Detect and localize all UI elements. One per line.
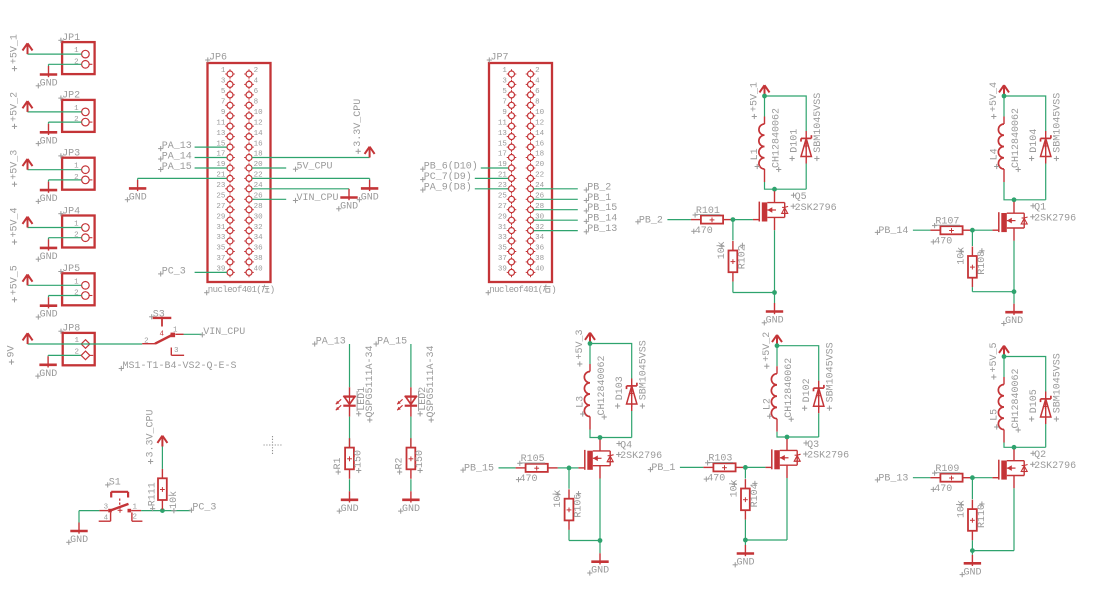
- svg-text:3: 3: [502, 78, 507, 86]
- svg-text:38: 38: [254, 255, 263, 263]
- svg-text:JP3: JP3: [62, 149, 80, 160]
- svg-text:R101: R101: [696, 206, 720, 217]
- svg-text:27: 27: [498, 203, 507, 211]
- svg-text:2: 2: [74, 116, 79, 124]
- svg-text:470: 470: [934, 237, 952, 248]
- svg-text:9V: 9V: [7, 345, 18, 357]
- svg-text:JP5: JP5: [62, 264, 80, 275]
- svg-text:15: 15: [498, 140, 508, 148]
- svg-text:7: 7: [502, 99, 507, 107]
- svg-text:GND: GND: [766, 316, 784, 327]
- svg-text:PB_15: PB_15: [587, 203, 617, 214]
- svg-text:2: 2: [133, 514, 138, 522]
- svg-text:GND: GND: [70, 535, 88, 546]
- svg-text:33: 33: [216, 234, 226, 242]
- svg-text:R2: R2: [395, 457, 406, 469]
- svg-text:25: 25: [498, 193, 508, 201]
- svg-text:R109: R109: [935, 464, 959, 475]
- svg-text:GND: GND: [341, 504, 359, 515]
- svg-text:1: 1: [173, 326, 178, 334]
- svg-text:CH12840062: CH12840062: [597, 355, 608, 415]
- svg-text:3: 3: [174, 347, 179, 355]
- svg-text:PB_15: PB_15: [464, 464, 494, 475]
- svg-text:28: 28: [254, 203, 263, 211]
- svg-text:2SK2796: 2SK2796: [1034, 213, 1076, 224]
- svg-text:7: 7: [221, 99, 226, 107]
- svg-text:470: 470: [934, 484, 952, 495]
- svg-text:Q1: Q1: [1034, 203, 1046, 214]
- svg-text:PB_2: PB_2: [587, 182, 611, 193]
- svg-text:+5V_4: +5V_4: [989, 82, 1000, 112]
- svg-text:36: 36: [254, 245, 264, 253]
- svg-text:31: 31: [216, 224, 226, 232]
- svg-text:R111: R111: [148, 482, 159, 506]
- svg-text:3: 3: [104, 504, 109, 512]
- svg-text:2SK2796: 2SK2796: [807, 451, 849, 462]
- svg-text:R104: R104: [750, 483, 761, 507]
- svg-text:+5V_3: +5V_3: [575, 329, 586, 359]
- svg-text:R106: R106: [574, 494, 585, 518]
- svg-text:1: 1: [502, 67, 507, 75]
- svg-text:37: 37: [498, 255, 507, 263]
- svg-text:33: 33: [498, 234, 508, 242]
- svg-text:36: 36: [535, 245, 545, 253]
- svg-text:+5V_1: +5V_1: [749, 82, 760, 112]
- svg-text:6: 6: [535, 88, 540, 96]
- svg-text:10: 10: [535, 109, 545, 117]
- svg-text:D104: D104: [1029, 129, 1040, 153]
- svg-text:9: 9: [502, 109, 507, 117]
- svg-text:8: 8: [535, 99, 540, 107]
- svg-text:3.3V_CPU: 3.3V_CPU: [353, 99, 364, 147]
- svg-text:34: 34: [535, 234, 545, 242]
- svg-text:PA_13: PA_13: [162, 141, 192, 152]
- svg-text:8: 8: [254, 99, 259, 107]
- svg-text:12: 12: [254, 119, 263, 127]
- svg-text:PB_2: PB_2: [639, 215, 663, 226]
- svg-text:18: 18: [535, 151, 544, 159]
- svg-text:PB_1: PB_1: [587, 193, 611, 204]
- svg-text:2: 2: [144, 338, 149, 346]
- svg-text:5: 5: [502, 88, 507, 96]
- svg-text:2SK2796: 2SK2796: [1034, 461, 1076, 472]
- svg-text:PA_15: PA_15: [162, 162, 192, 173]
- svg-text:25: 25: [216, 193, 226, 201]
- svg-text:SBM1045VSS: SBM1045VSS: [639, 340, 650, 400]
- svg-text:PA_14: PA_14: [162, 152, 192, 163]
- svg-text:5: 5: [221, 88, 226, 96]
- svg-text:L5: L5: [990, 409, 1001, 421]
- svg-text:R1: R1: [333, 457, 344, 469]
- svg-text:QSPG5111A-34: QSPG5111A-34: [426, 345, 437, 417]
- svg-text:23: 23: [216, 182, 226, 190]
- svg-text:17: 17: [498, 151, 507, 159]
- svg-text:GND: GND: [361, 192, 379, 203]
- svg-text:14: 14: [254, 130, 264, 138]
- svg-text:Q5: Q5: [795, 192, 807, 203]
- svg-text:D103: D103: [615, 376, 626, 400]
- svg-text:+5V_2: +5V_2: [10, 92, 21, 122]
- svg-text:4: 4: [160, 331, 165, 339]
- svg-text:GND: GND: [402, 504, 420, 515]
- svg-text:470: 470: [520, 474, 538, 485]
- svg-text:11: 11: [498, 119, 508, 127]
- svg-text:2: 2: [74, 58, 79, 66]
- svg-text:GND: GND: [964, 567, 982, 578]
- svg-text:16: 16: [535, 140, 545, 148]
- svg-text:+5V_2: +5V_2: [762, 332, 773, 362]
- svg-text:JP2: JP2: [62, 91, 80, 102]
- svg-text:PB_13: PB_13: [878, 474, 908, 485]
- svg-text:PC_7(D9): PC_7(D9): [424, 171, 472, 183]
- svg-text:GND: GND: [129, 192, 147, 203]
- svg-text:QSPG5111A-34: QSPG5111A-34: [365, 345, 376, 417]
- svg-text:4: 4: [104, 514, 109, 522]
- svg-text:6: 6: [254, 88, 259, 96]
- svg-text:PB_14: PB_14: [878, 226, 908, 237]
- svg-text:L4: L4: [990, 148, 1001, 160]
- svg-text:+5V_5: +5V_5: [989, 342, 1000, 372]
- svg-text:150: 150: [354, 450, 365, 468]
- svg-text:Q4: Q4: [620, 440, 632, 451]
- svg-text:Q3: Q3: [807, 440, 819, 451]
- svg-text:29: 29: [498, 213, 507, 221]
- svg-text:2: 2: [74, 232, 79, 240]
- svg-text:35: 35: [498, 245, 508, 253]
- svg-text:2: 2: [74, 290, 79, 298]
- svg-text:11: 11: [216, 119, 226, 127]
- svg-text:PC_3: PC_3: [162, 266, 186, 277]
- svg-text:nucleof401(: nucleof401(: [489, 285, 542, 295]
- svg-text:2: 2: [254, 67, 259, 75]
- svg-text:31: 31: [498, 224, 508, 232]
- svg-text:nucleof401(: nucleof401(: [208, 285, 261, 295]
- svg-text:GND: GND: [40, 310, 58, 321]
- svg-text:29: 29: [216, 213, 225, 221]
- svg-text:12: 12: [535, 119, 544, 127]
- svg-text:2SK2796: 2SK2796: [620, 451, 662, 462]
- svg-text:R105: R105: [521, 454, 545, 465]
- svg-text:JP7: JP7: [491, 53, 509, 64]
- svg-text:4: 4: [254, 78, 259, 86]
- svg-text:R108: R108: [977, 251, 988, 275]
- svg-text:32: 32: [254, 224, 263, 232]
- svg-text:GND: GND: [591, 566, 609, 577]
- svg-text:30: 30: [254, 213, 264, 221]
- svg-text:40: 40: [535, 266, 545, 274]
- svg-text:SBM1045VSS: SBM1045VSS: [1053, 353, 1064, 413]
- svg-text:34: 34: [254, 234, 264, 242]
- svg-text:GND: GND: [40, 136, 58, 147]
- svg-text:PB_6(D10): PB_6(D10): [424, 161, 478, 173]
- svg-text:Q2: Q2: [1034, 450, 1046, 461]
- svg-text:16: 16: [254, 140, 264, 148]
- svg-text:13: 13: [498, 130, 508, 138]
- svg-text:GND: GND: [39, 369, 57, 380]
- svg-text:1: 1: [221, 67, 226, 75]
- svg-text:PB_1: PB_1: [651, 463, 675, 474]
- svg-text:PA_13: PA_13: [316, 336, 346, 347]
- svg-text:35: 35: [216, 245, 226, 253]
- svg-text:D105: D105: [1029, 389, 1040, 413]
- svg-text:38: 38: [535, 255, 544, 263]
- svg-text:L2: L2: [763, 398, 774, 410]
- svg-text:JP6: JP6: [209, 53, 227, 64]
- svg-text:150: 150: [415, 450, 426, 468]
- svg-text:+5V_3: +5V_3: [10, 150, 21, 180]
- svg-text:SBM1045VSS: SBM1045VSS: [1053, 93, 1064, 153]
- svg-text:R107: R107: [935, 217, 959, 228]
- svg-text:SBM1045VSS: SBM1045VSS: [826, 342, 837, 402]
- svg-text:CH12840062: CH12840062: [772, 108, 783, 168]
- svg-text:MS1-T1-B4-VS2-Q-E-S: MS1-T1-B4-VS2-Q-E-S: [123, 361, 237, 372]
- svg-text:GND: GND: [40, 79, 58, 90]
- svg-text:CH12840062: CH12840062: [1011, 368, 1022, 428]
- svg-text:20: 20: [535, 161, 545, 169]
- svg-text:3: 3: [221, 78, 226, 86]
- svg-text:L1: L1: [750, 148, 761, 160]
- svg-text:GND: GND: [737, 558, 755, 569]
- svg-text:GND: GND: [340, 202, 358, 213]
- svg-text:PB_14: PB_14: [587, 214, 617, 225]
- svg-text:GND: GND: [40, 194, 58, 205]
- svg-text:CH12840062: CH12840062: [784, 358, 795, 418]
- svg-text:9: 9: [221, 109, 226, 117]
- svg-text:): ): [270, 285, 275, 295]
- svg-text:22: 22: [535, 172, 544, 180]
- svg-text:JP1: JP1: [62, 33, 80, 44]
- svg-text:PA_9(D8): PA_9(D8): [424, 181, 472, 193]
- svg-text:4: 4: [535, 78, 540, 86]
- svg-text:VIN_CPU: VIN_CPU: [203, 327, 245, 338]
- svg-text:PC_3: PC_3: [192, 503, 216, 514]
- svg-text:L3: L3: [576, 396, 587, 408]
- svg-text:GND: GND: [40, 252, 58, 263]
- svg-text:3.3V_CPU: 3.3V_CPU: [146, 409, 157, 457]
- svg-text:PA_15: PA_15: [377, 336, 407, 347]
- svg-text:R103: R103: [708, 454, 732, 465]
- svg-text:CH12840062: CH12840062: [1011, 108, 1022, 168]
- svg-text:VIN_CPU: VIN_CPU: [297, 193, 339, 204]
- svg-text:2: 2: [74, 174, 79, 182]
- svg-text:470: 470: [707, 474, 725, 485]
- svg-text:1: 1: [133, 504, 138, 512]
- svg-text:10: 10: [254, 109, 264, 117]
- svg-text:27: 27: [216, 203, 225, 211]
- svg-text:2SK2796: 2SK2796: [795, 203, 837, 214]
- svg-text:R102: R102: [738, 245, 749, 269]
- svg-text:40: 40: [254, 266, 264, 274]
- svg-text:SBM1045VSS: SBM1045VSS: [813, 93, 824, 153]
- svg-text:37: 37: [216, 255, 225, 263]
- svg-text:JP4: JP4: [62, 206, 80, 217]
- svg-text:14: 14: [535, 130, 545, 138]
- svg-text:2: 2: [535, 67, 540, 75]
- svg-text:+5V_1: +5V_1: [10, 34, 21, 64]
- svg-text:13: 13: [216, 130, 226, 138]
- svg-text:10k: 10k: [168, 491, 180, 509]
- svg-text:+5V_4: +5V_4: [10, 207, 21, 237]
- svg-text:+5V_5: +5V_5: [10, 265, 21, 295]
- svg-text:S1: S1: [109, 477, 121, 488]
- svg-text:R110: R110: [977, 504, 988, 528]
- svg-text:): ): [551, 285, 556, 295]
- svg-text:39: 39: [498, 266, 507, 274]
- svg-text:GND: GND: [1005, 316, 1023, 327]
- svg-text:D102: D102: [802, 378, 813, 402]
- svg-text:PB_13: PB_13: [587, 224, 617, 235]
- svg-text:470: 470: [695, 226, 713, 237]
- svg-text:5V_CPU: 5V_CPU: [297, 162, 333, 173]
- svg-text:D101: D101: [789, 129, 800, 153]
- svg-text:JP8: JP8: [62, 324, 80, 335]
